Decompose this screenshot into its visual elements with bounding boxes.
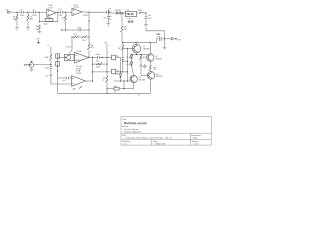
- resistor R1: [15, 15, 18, 21]
- svg-text:TL072: TL072: [74, 7, 79, 9]
- diode D3: [130, 54, 132, 59]
- wire R3b to gnd: [38, 30, 40, 32]
- wire colL b: [50, 69, 52, 73]
- capacitor C2: [34, 11, 36, 14]
- svg-text:1M: 1M: [118, 48, 121, 50]
- junction node F: [71, 36, 72, 37]
- svg-text:in: in: [47, 45, 48, 47]
- wire Q3 base wire: [141, 74, 147, 76]
- optocoupler U4 box: [64, 54, 74, 60]
- svg-text:22k: 22k: [74, 34, 77, 36]
- wire pwr row c: [123, 12, 126, 14]
- capacitor C7: [145, 17, 148, 19]
- junction colN j719: [92, 71, 93, 72]
- junction det j1: [120, 80, 121, 81]
- wire row1 a: [89, 56, 97, 58]
- wire Q2 collector: [149, 42, 151, 54]
- optocoupler U4 lamp circle: [67, 55, 71, 59]
- capacitor C9: [50, 67, 53, 69]
- wire U1B out to node E: [82, 11, 89, 13]
- wire Q1 collector: [136, 42, 138, 44]
- wire diode col bot: [120, 79, 122, 82]
- transistor Q4: [130, 75, 137, 82]
- title block divider h1: [121, 132, 211, 134]
- svg-text:SUSTAIN: SUSTAIN: [24, 63, 32, 66]
- svg-text:220k: 220k: [96, 67, 100, 69]
- svg-text:100n: 100n: [20, 15, 24, 17]
- wire colL top: [50, 47, 52, 54]
- wire bias col a: [121, 32, 123, 42]
- title block frame: [121, 117, 211, 146]
- wire node E col 12-30: [88, 12, 90, 30]
- wire in2 down to R2: [27, 12, 29, 14]
- transistor Q1: [132, 44, 141, 53]
- title underline: [124, 123, 147, 125]
- potentiometer VR1: [30, 63, 34, 68]
- wire row3 a: [72, 36, 73, 38]
- svg-text:100R: 100R: [138, 10, 143, 12]
- svg-text:100n: 100n: [77, 27, 81, 29]
- wire rc col top: [140, 54, 142, 57]
- junction node in2: [27, 12, 28, 13]
- wire rail to out: [156, 39, 158, 43]
- wire pwr row d: [137, 12, 139, 14]
- title block divider v2: [151, 139, 153, 145]
- svg-text:OUT: OUT: [177, 40, 182, 42]
- wire fb2 left ext: [62, 29, 66, 31]
- wire Q4 emitter: [133, 83, 135, 89]
- wire col72 down: [71, 37, 73, 50]
- svg-text:2N5087: 2N5087: [155, 58, 162, 60]
- wire bt to row: [109, 11, 111, 14]
- resistor R17 box: [114, 87, 119, 90]
- junction colR j719: [127, 71, 128, 72]
- wire row2: [93, 63, 108, 65]
- svg-text:4u7: 4u7: [45, 75, 49, 77]
- svg-text:in out: in out: [127, 17, 132, 20]
- wire Q1 base: [123, 48, 132, 50]
- resistor R3b: [38, 25, 41, 30]
- transistor Q2: [147, 54, 154, 61]
- diode D4: [130, 61, 132, 66]
- junction node pot: [50, 64, 51, 65]
- junction row3 j2: [120, 71, 121, 72]
- capacitor C12: [140, 65, 143, 67]
- wire row1 b: [100, 56, 112, 58]
- wire R4 to fb2: [65, 21, 67, 30]
- ground GND4: [106, 24, 110, 26]
- ground GND6: [163, 47, 167, 49]
- wire c7 top: [145, 13, 147, 16]
- svg-text:+9V: +9V: [36, 39, 40, 41]
- svg-text:2N5088: 2N5088: [143, 49, 150, 51]
- svg-text:DC: DC: [109, 11, 112, 13]
- svg-text:1W: 1W: [124, 29, 127, 31]
- svg-text:IC4: IC4: [126, 10, 129, 12]
- wire gnd return h: [146, 30, 165, 32]
- svg-text:10k: 10k: [91, 47, 94, 49]
- wire rc col mid: [140, 60, 142, 65]
- junction node D: [65, 29, 66, 30]
- wire c7 bot: [145, 20, 147, 25]
- resistor R18: [139, 55, 142, 59]
- svg-text:100p: 100p: [43, 23, 47, 25]
- resistor R19: [149, 65, 152, 70]
- wire pwr row a: [108, 12, 116, 14]
- op-amp U2B: [72, 76, 86, 87]
- op-amp U2A: [75, 52, 89, 63]
- power flag +9V: [37, 40, 40, 44]
- svg-text:Author:: Author:: [122, 125, 129, 128]
- wire col72 slant: [69, 50, 72, 54]
- junction node D0: [61, 29, 62, 30]
- wire c6 top: [107, 13, 109, 16]
- svg-text:25V: 25V: [148, 18, 152, 20]
- junction row3 j122: [122, 71, 123, 72]
- wire colR up: [127, 49, 129, 62]
- wire pot down: [31, 68, 33, 70]
- junction rail j1: [135, 42, 136, 43]
- svg-text:TL072: TL072: [83, 15, 90, 17]
- resistor R14: [96, 62, 102, 65]
- junction node P2: [139, 12, 140, 13]
- resistor R8: [120, 26, 123, 32]
- title block divider h2: [121, 138, 211, 140]
- regulator U3 box: [126, 11, 137, 16]
- wire col120 a: [120, 57, 122, 72]
- wire det row2 b: [119, 88, 134, 90]
- junction bias j61: [122, 61, 123, 62]
- wire nodeB to C4: [58, 11, 60, 13]
- wire row3 b: [79, 36, 82, 38]
- wire U2B out: [86, 80, 93, 82]
- wire row3 b: [116, 71, 128, 73]
- wire Q1 emitter: [136, 53, 138, 55]
- junction bot j2: [106, 93, 107, 94]
- wire bias top: [121, 13, 123, 26]
- wire rc col bot: [140, 67, 142, 75]
- svg-text:Title:: Title:: [122, 118, 127, 121]
- wire row61: [123, 60, 128, 62]
- svg-text:10k: 10k: [96, 60, 99, 62]
- resistor R2: [26, 15, 29, 21]
- svg-text:C1: C1: [20, 9, 23, 11]
- junction node out: [164, 38, 165, 39]
- wire in1 down to R1: [16, 12, 18, 14]
- wire pwr row e: [145, 12, 146, 14]
- svg-text:220k: 220k: [44, 57, 48, 59]
- regulator U3 pin marks: [128, 21, 133, 23]
- junction colM j2: [57, 70, 58, 71]
- wire nodeA down: [38, 12, 40, 22]
- svg-text:2M2: 2M2: [13, 19, 17, 21]
- wire in2 to C2: [28, 11, 33, 13]
- wire col89 49.5-57.4: [88, 50, 90, 58]
- junction det j2: [123, 80, 124, 81]
- wire gnd spur: [144, 64, 146, 66]
- junction node P1: [122, 12, 123, 13]
- op-amp U1B: [72, 8, 82, 16]
- wire U2B in1a: [58, 77, 67, 79]
- svg-text:4148: 4148: [126, 57, 130, 59]
- junction node P4: [121, 12, 122, 13]
- wire col89 30-37: [88, 30, 90, 37]
- capacitor C4: [61, 11, 63, 14]
- bias arrow U2B: [73, 86, 82, 89]
- wire C2 to nodeA: [36, 11, 39, 13]
- wire R1 to gnd: [16, 21, 18, 28]
- svg-text:TL072: TL072: [48, 7, 53, 9]
- junction node G: [88, 36, 89, 37]
- junction node A2: [39, 21, 40, 22]
- junction row1 j2: [102, 57, 103, 58]
- wire out wire a: [157, 38, 159, 40]
- wire colM: [57, 54, 59, 94]
- resistor R16: [105, 76, 108, 83]
- svg-text:C2: C2: [32, 9, 35, 11]
- transistor Q3: [147, 72, 155, 80]
- wire R9 to Q1 base: [122, 49, 124, 51]
- svg-text:25V: 25V: [157, 37, 161, 39]
- resistor R6: [82, 35, 87, 38]
- svg-text:10k: 10k: [62, 18, 65, 20]
- junction row3 j1: [106, 71, 107, 72]
- wire in1 to C1: [17, 11, 21, 13]
- svg-text:R: R: [103, 80, 105, 82]
- connector J2 output jack: [171, 38, 176, 40]
- capacitor C8: [159, 37, 161, 41]
- wire C4 to node C: [63, 11, 66, 13]
- inductor L1: [139, 12, 144, 13]
- op-amp U1A: [47, 9, 56, 16]
- junction node C: [65, 12, 66, 13]
- svg-text:100n: 100n: [96, 54, 100, 56]
- junction U4 node: [65, 57, 66, 58]
- diode D2: [119, 73, 121, 78]
- svg-text:B(V): B(V): [193, 137, 197, 139]
- wire col89 37-43.5: [88, 37, 90, 44]
- wire fb2 left: [66, 29, 79, 31]
- wire out col: [164, 31, 166, 48]
- wire det row2 a: [107, 88, 114, 90]
- junction row2 j1: [92, 64, 93, 65]
- wire row3 c: [87, 36, 89, 38]
- svg-text:1N5817: 1N5817: [115, 10, 122, 12]
- resistor R10: [49, 54, 52, 61]
- svg-text:78L09: 78L09: [126, 13, 134, 16]
- svg-text:4148: 4148: [126, 64, 130, 66]
- junction em j2: [140, 54, 141, 55]
- resistor R13 box: [112, 55, 116, 60]
- svg-text:22k: 22k: [82, 40, 85, 42]
- ground GND7: [30, 69, 34, 71]
- wire Q3 emitter: [150, 79, 152, 93]
- junction det row2 j: [123, 88, 124, 89]
- junction colR j485: [127, 48, 128, 49]
- wire R19 to Q3: [149, 70, 152, 71]
- wire U2B in1b: [69, 77, 71, 79]
- junction node E: [88, 12, 89, 13]
- wire gnd return v: [145, 27, 147, 31]
- svg-text:VTL5C: VTL5C: [66, 47, 72, 49]
- junction node H: [88, 57, 89, 58]
- svg-text:47u: 47u: [103, 17, 106, 19]
- svg-text:5%: 5%: [36, 28, 39, 30]
- svg-text:4148: 4148: [115, 74, 119, 76]
- wire fb2 right: [81, 29, 89, 31]
- capacitor C1: [22, 11, 24, 14]
- wire row3 a: [93, 71, 112, 73]
- junction node B: [57, 12, 58, 13]
- wire det row: [114, 80, 130, 82]
- junction em j3: [131, 54, 132, 55]
- ground GND2: [26, 28, 30, 30]
- wire colM to box: [58, 56, 65, 58]
- wire pot to col: [34, 64, 51, 66]
- svg-text:100k: 100k: [46, 17, 50, 19]
- wire node E to power joint: [89, 11, 107, 13]
- capacitor C5: [79, 29, 81, 32]
- svg-text:Date:: Date:: [153, 140, 158, 143]
- svg-text:10k: 10k: [114, 86, 117, 88]
- diode D1 polarity: [116, 12, 120, 15]
- wire col107 a: [106, 44, 108, 76]
- ground GND8: [143, 66, 147, 68]
- svg-text:IC3A: IC3A: [77, 50, 82, 53]
- resistor R7: [87, 44, 90, 50]
- junction node E3: [88, 20, 89, 21]
- svg-text:1 of 1: 1 of 1: [193, 143, 199, 145]
- wire R2 to gnd: [27, 21, 29, 28]
- junction node in1: [16, 12, 17, 13]
- resistor R9: [121, 45, 124, 51]
- svg-text:C4: C4: [59, 9, 62, 11]
- wire bias col down: [122, 49, 124, 58]
- svg-text:Sheets:: Sheets:: [192, 140, 199, 143]
- wire nodeB down: [57, 12, 59, 22]
- wire colL a: [50, 60, 52, 66]
- wire bias col down2: [122, 60, 124, 72]
- wire diode col top: [120, 72, 122, 74]
- svg-text:9V: 9V: [109, 19, 112, 21]
- wire colL to U2B: [51, 83, 72, 85]
- junction node E2: [88, 29, 89, 30]
- svg-text:2M2: 2M2: [30, 19, 33, 21]
- wire bottom wire: [58, 92, 151, 94]
- wire fb1 wire: [39, 21, 57, 23]
- resistor R12 box: [56, 62, 60, 66]
- svg-text:28 Apr 2005: 28 Apr 2005: [155, 142, 167, 145]
- wire input to J2: [11, 11, 17, 13]
- battery BT1 9V: [107, 10, 110, 15]
- wire colR: [127, 61, 129, 81]
- junction col107 j4: [106, 88, 107, 89]
- wire out wire b: [162, 38, 171, 40]
- junction node A: [38, 12, 39, 13]
- wire nodeA to U1A: [39, 11, 47, 13]
- capacitor C13: [67, 77, 69, 79]
- svg-text:10u: 10u: [148, 15, 151, 17]
- title block divider v1: [189, 133, 191, 145]
- wire c6 bot: [107, 19, 109, 24]
- ground GND5: [144, 25, 148, 27]
- resistor R3 box feedback: [45, 18, 53, 21]
- resistor R15 box: [112, 69, 116, 74]
- junction row2 j2: [106, 64, 107, 65]
- svg-text:100n: 100n: [32, 15, 36, 17]
- wire col107 b: [106, 82, 108, 93]
- junction node P3: [145, 12, 146, 13]
- wire rail: [122, 41, 157, 43]
- wire U1A out to node B: [56, 11, 58, 14]
- svg-text:2N5087: 2N5087: [156, 76, 163, 78]
- capacitor C14: [122, 58, 125, 60]
- svg-text:100n: 100n: [45, 67, 49, 69]
- wire C1 to in2: [24, 11, 28, 13]
- resistor R4: [64, 15, 67, 21]
- junction colR j61: [127, 61, 128, 62]
- wire pwr row b: [121, 12, 123, 14]
- wire row1 c: [116, 56, 121, 58]
- junction row1 j3: [106, 57, 107, 58]
- svg-text:website:fingerprints: website:fingerprints: [124, 130, 141, 133]
- svg-text:4u7: 4u7: [63, 80, 66, 82]
- wire rail to R9: [122, 42, 124, 44]
- junction colM j1: [57, 66, 58, 67]
- svg-text:13700: 13700: [76, 73, 81, 75]
- svg-text:4u7: 4u7: [73, 88, 76, 90]
- wire colL c: [50, 77, 52, 84]
- svg-text:E=base(b) - Black Finger - d: E=base(b) - Black Finger - dr.mod of d.d…: [125, 137, 171, 139]
- resistor R11 box: [56, 54, 60, 58]
- resistor R5: [73, 35, 78, 38]
- wire colN: [92, 57, 94, 81]
- wire colQ: [123, 81, 125, 89]
- svg-text:1W: 1W: [153, 69, 156, 71]
- svg-text:4k7: 4k7: [143, 57, 146, 59]
- wire Q2 emitter: [149, 61, 151, 65]
- ground GND3: [37, 31, 41, 33]
- ground GND1: [15, 28, 19, 30]
- wire emitter row: [132, 54, 148, 56]
- wire dchain mid: [131, 59, 133, 62]
- junction rail j2: [149, 42, 150, 43]
- wire dchain top: [131, 54, 133, 57]
- wire nodeC down to R4: [65, 12, 67, 15]
- junction det j3: [127, 80, 128, 81]
- connector J1 input jack: [7, 11, 11, 13]
- svg-text:13700: 13700: [76, 60, 81, 62]
- junction em j1: [136, 54, 137, 55]
- wire node C to U1B: [66, 11, 72, 13]
- junction colN j: [92, 80, 93, 81]
- capacitor C10: [50, 74, 53, 76]
- junction rail j0: [122, 42, 123, 43]
- capacitor C11: [97, 56, 99, 59]
- svg-text:2N5088: 2N5088: [138, 79, 145, 81]
- junction row1 j1: [92, 57, 93, 58]
- svg-text:1k: 1k: [138, 95, 140, 97]
- wire dchain bot: [132, 66, 134, 75]
- capacitor C6: [107, 17, 110, 19]
